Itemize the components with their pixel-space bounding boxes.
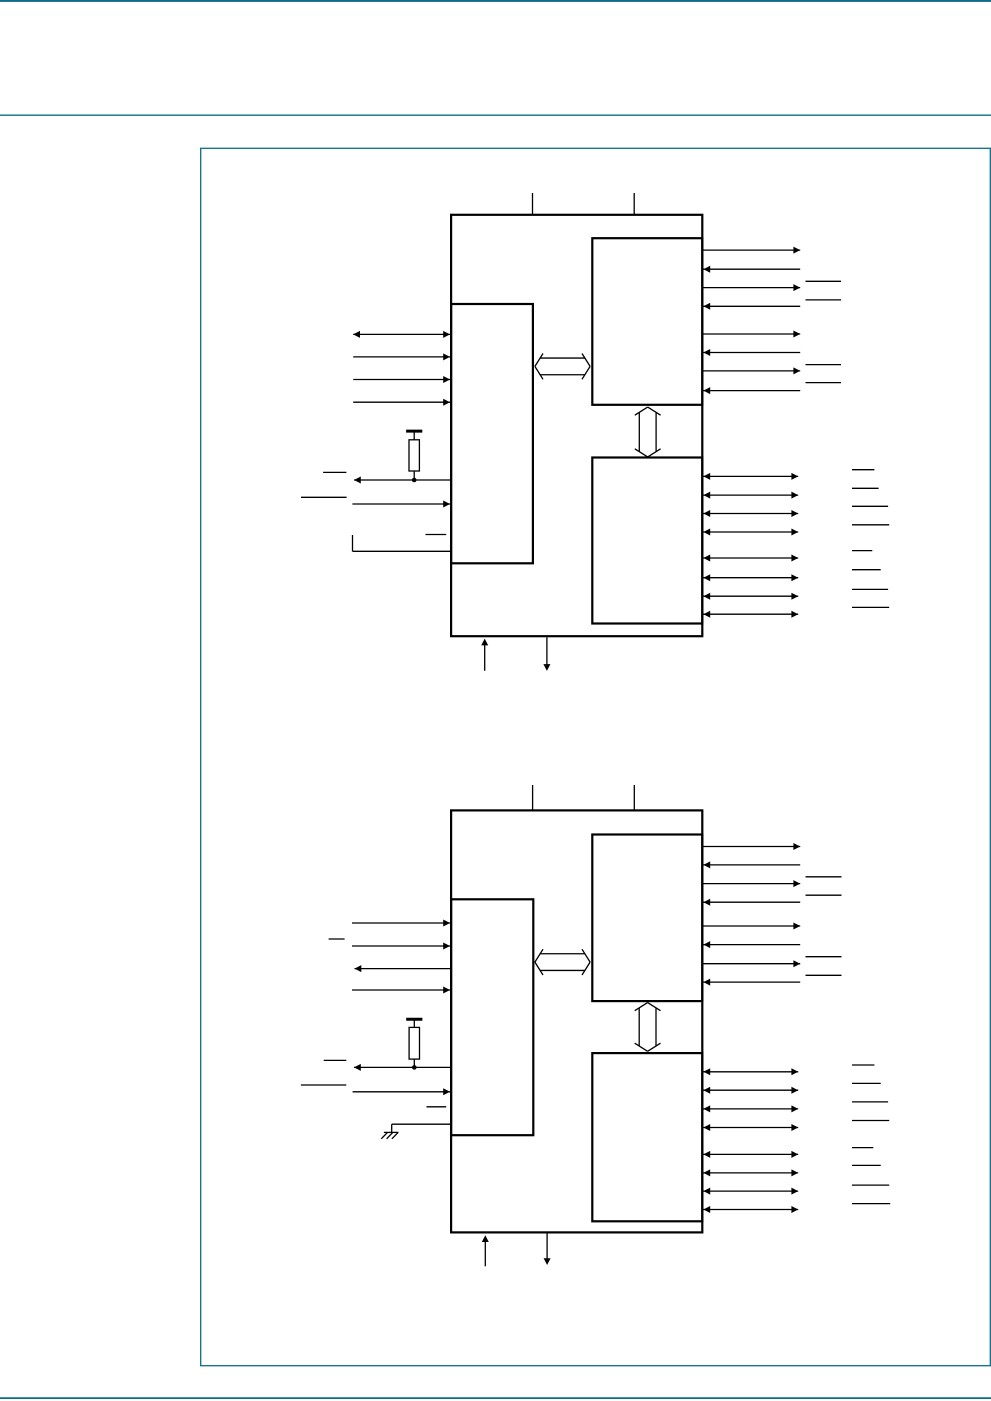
wire CTSB line U1 (703, 529, 798, 536)
wire DTRB line U2 (703, 1151, 798, 1158)
chip U1 outline (451, 215, 702, 636)
page top teal bar (0, 0, 991, 2)
wire CTSB line U2 (703, 1124, 798, 1131)
wire IOW line U2 (352, 943, 450, 950)
label overbar CTSA U2 (806, 894, 842, 896)
label overbar DSRB U1 (852, 569, 881, 571)
label overbar CS U2 (324, 1059, 347, 1061)
U1 channel B block (592, 458, 702, 624)
resistor R2 (406, 1019, 422, 1067)
wire RXB line U2 (703, 1087, 798, 1094)
label overbar DTRB U1 (852, 550, 872, 552)
U1 channel A block (592, 238, 702, 405)
label overbar RXB U2 (852, 1082, 881, 1084)
ground (381, 1132, 398, 1138)
wire CDB line U1 (703, 611, 798, 618)
wire GND line U1 (543, 637, 550, 671)
wire OP2A line U2 (702, 960, 800, 967)
wire D0-D7 bus line U1 (353, 331, 450, 338)
wire VCC line U2 (482, 1235, 489, 1266)
label overbar OP2B U2 (852, 1184, 889, 1186)
wire WR line U1 (353, 376, 450, 383)
label overbar RESET U1 (426, 534, 447, 536)
wire OP2B line U2 (703, 1188, 798, 1195)
label overbar CTSB U1 (852, 524, 889, 526)
label overbar DTRB U2 (852, 1147, 873, 1149)
footer rule (0, 1397, 991, 1399)
wire XTAL1 pin tick U2 (532, 785, 534, 811)
wire RTSA line U1 (702, 284, 800, 291)
label overbar IOR U2 (301, 1084, 346, 1086)
wire RESET bend U1 (353, 535, 451, 551)
label overbar TXB U1 (852, 469, 874, 471)
label overbar CTSA U1 (806, 299, 842, 301)
wire A0-A2 line U2 (352, 987, 450, 994)
bus arrow U2 control to channel A (535, 949, 590, 975)
chip U2 outline (451, 810, 702, 1232)
wire DSRA line U2 (703, 941, 800, 948)
label overbar CDA U2 (806, 974, 842, 976)
label overbar TXB U2 (852, 1064, 874, 1066)
wire DTRA line U1 (702, 331, 800, 338)
bus arrow U2 channel A to channel B (635, 1003, 661, 1052)
wire RXA line U2 (703, 861, 800, 868)
wire CDB line U2 (703, 1206, 798, 1213)
wire RXA line U1 (703, 266, 800, 273)
figure frame (201, 148, 991, 1365)
wire TXB line U2 (703, 1068, 798, 1075)
bus arrow U1 channel A to channel B (635, 407, 661, 457)
wire RXB line U1 (703, 492, 798, 499)
wire GND line U2 (544, 1233, 551, 1265)
label overbar DSRB U2 (852, 1164, 881, 1166)
U1 control block (451, 304, 533, 563)
label overbar RTSB U2 (852, 1101, 888, 1103)
wire TXA line U2 (702, 843, 800, 850)
label overbar CTSB U2 (852, 1120, 889, 1122)
wire CDA line U2 (703, 979, 800, 986)
wire DTRB line U1 (703, 555, 798, 562)
wire RTSB line U2 (703, 1105, 798, 1112)
wire DTRA line U2 (702, 923, 800, 930)
wire RD line U1 (353, 353, 450, 360)
wire RTSA line U2 (702, 880, 800, 887)
label overbar OP2B U1 (852, 588, 888, 590)
label overbar RTSA U1 (806, 280, 842, 282)
wire CS line U1 (352, 501, 450, 508)
wire VCC line U1 (481, 639, 488, 671)
wire TXB line U1 (703, 473, 798, 480)
wire RTSB line U1 (703, 510, 798, 517)
wire A0-A2 line U1 (353, 399, 450, 406)
wire XTAL1 pin tick U1 (532, 193, 534, 214)
wire CTSA line U1 (703, 303, 800, 310)
node junction R2 (412, 1065, 417, 1070)
wire OP2A line U1 (702, 367, 800, 374)
bus arrow U1 control to channel A (535, 354, 590, 380)
label overbar RTSB U1 (852, 505, 888, 507)
label overbar OP2A U2 (806, 956, 842, 958)
wire CS line U2 (353, 1088, 450, 1095)
wire TXA line U1 (702, 247, 800, 254)
wire CDA line U1 (703, 387, 800, 394)
wire XTAL2 pin tick U1 (633, 193, 635, 214)
label overbar CS U1 (323, 471, 346, 473)
wire CTSA line U2 (703, 899, 800, 906)
U2 control block (451, 899, 533, 1135)
label overbar RTSA U2 (806, 876, 842, 878)
wire INTR line U2 (354, 1064, 450, 1071)
wire XTAL2 pin tick U2 (633, 785, 635, 811)
node junction R1 (412, 478, 417, 483)
wire DSRB line U2 (703, 1169, 798, 1176)
label overbar IOR U1 (301, 496, 347, 498)
wire DSRB line U1 (703, 574, 798, 581)
label overbar RESET U2 (427, 1106, 447, 1108)
wire DSRA line U1 (703, 349, 800, 356)
label overbar RXB U1 (852, 487, 879, 489)
label overbar CDA U1 (806, 382, 842, 384)
U2 channel A block (592, 835, 702, 1002)
wire DDIS line U2 (355, 965, 451, 972)
wire OP2B line U1 (703, 593, 798, 600)
wire GND stub U2 (392, 1124, 450, 1132)
label overbar CDB U1 (852, 606, 889, 608)
header rule (0, 114, 991, 116)
wire D0-D7 line U2 (352, 920, 450, 927)
label overbar OP2A U1 (806, 364, 842, 366)
wire INTR line U1 (354, 477, 450, 484)
U2 channel B block (592, 1053, 702, 1221)
label overbar IOW U2 (329, 938, 345, 940)
label overbar CDB U2 (852, 1203, 890, 1205)
resistor R1 (406, 431, 422, 480)
